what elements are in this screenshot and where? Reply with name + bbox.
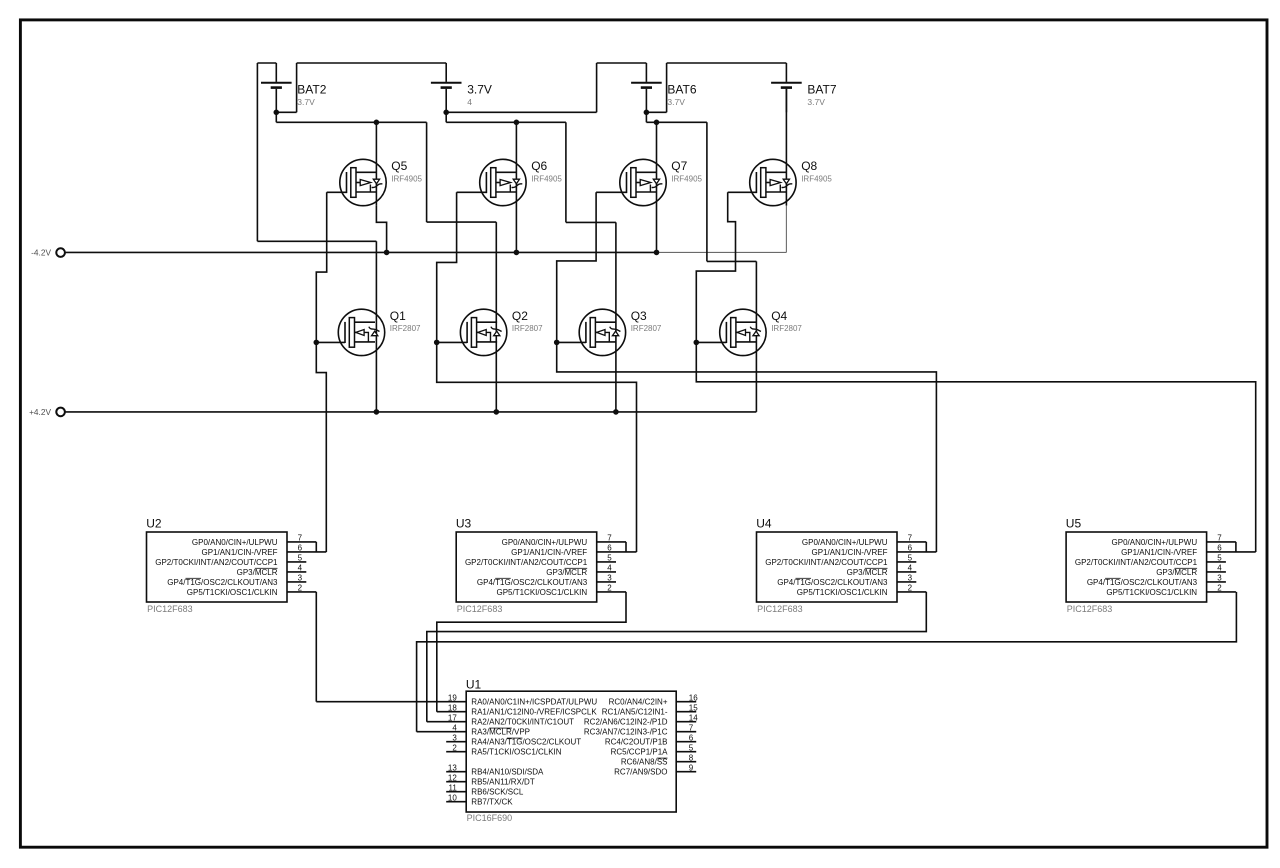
svg-text:RA5/T1CKI/OSC1/CLKIN: RA5/T1CKI/OSC1/CLKIN — [471, 748, 561, 757]
svg-text:Q2: Q2 — [512, 309, 528, 323]
svg-text:3.7V: 3.7V — [807, 97, 825, 107]
svg-text:U1: U1 — [466, 678, 482, 692]
svg-text:U4: U4 — [756, 516, 772, 530]
svg-text:RC6/AN8/SS: RC6/AN8/SS — [621, 758, 668, 767]
svg-text:3.7V: 3.7V — [297, 97, 315, 107]
svg-text:IRF4905: IRF4905 — [671, 174, 702, 183]
svg-text:IRF2807: IRF2807 — [390, 324, 421, 333]
svg-text:3.7V: 3.7V — [667, 97, 685, 107]
svg-text:U2: U2 — [146, 516, 162, 530]
svg-text:Q5: Q5 — [391, 159, 407, 173]
svg-text:GP3/MCLR: GP3/MCLR — [546, 568, 587, 577]
svg-text:GP2/T0CKI/INT/AN2/COUT/CCP1: GP2/T0CKI/INT/AN2/COUT/CCP1 — [1075, 558, 1198, 567]
svg-text:GP0/AN0/CIN+/ULPWU: GP0/AN0/CIN+/ULPWU — [802, 538, 888, 547]
svg-text:IRF2807: IRF2807 — [771, 324, 802, 333]
svg-text:18: 18 — [448, 703, 457, 712]
svg-text:IRF2807: IRF2807 — [512, 324, 543, 333]
svg-text:GP0/AN0/CIN+/ULPWU: GP0/AN0/CIN+/ULPWU — [192, 538, 278, 547]
svg-text:RA3/MCLR/VPP: RA3/MCLR/VPP — [471, 728, 530, 737]
svg-text:RC0/AN4/C2IN+: RC0/AN4/C2IN+ — [609, 698, 668, 707]
svg-text:U5: U5 — [1066, 516, 1082, 530]
svg-text:GP5/T1CKI/OSC1/CLKIN: GP5/T1CKI/OSC1/CLKIN — [187, 588, 278, 597]
svg-text:IRF4905: IRF4905 — [391, 174, 422, 183]
svg-text:+4.2V: +4.2V — [29, 407, 51, 417]
svg-text:GP4/T1G/OSC2/CLKOUT/AN3: GP4/T1G/OSC2/CLKOUT/AN3 — [167, 578, 278, 587]
svg-text:IRF2807: IRF2807 — [631, 324, 662, 333]
svg-text:RC7/AN9/SDO: RC7/AN9/SDO — [614, 768, 667, 777]
svg-text:GP4/T1G/OSC2/CLKOUT/AN3: GP4/T1G/OSC2/CLKOUT/AN3 — [477, 578, 588, 587]
svg-text:GP1/AN1/CIN-/VREF: GP1/AN1/CIN-/VREF — [511, 548, 587, 557]
svg-text:Q7: Q7 — [671, 159, 687, 173]
svg-text:RA4/AN3/T1G/OSC2/CLKOUT: RA4/AN3/T1G/OSC2/CLKOUT — [471, 738, 581, 747]
svg-text:Q8: Q8 — [801, 159, 817, 173]
svg-text:4: 4 — [452, 723, 457, 732]
svg-text:19: 19 — [448, 693, 457, 702]
svg-text:BAT2: BAT2 — [297, 83, 326, 97]
svg-text:RC1/AN5/C12IN1-: RC1/AN5/C12IN1- — [602, 708, 668, 717]
svg-text:GP0/AN0/CIN+/ULPWU: GP0/AN0/CIN+/ULPWU — [502, 538, 588, 547]
svg-text:GP3/MCLR: GP3/MCLR — [237, 568, 278, 577]
svg-text:Q1: Q1 — [390, 309, 406, 323]
svg-text:17: 17 — [448, 713, 457, 722]
svg-text:RC5/CCP1/P1A: RC5/CCP1/P1A — [611, 748, 669, 757]
svg-text:PIC12F683: PIC12F683 — [147, 604, 193, 614]
svg-text:RA0/AN0/C1IN+/ICSPDAT/ULPWU: RA0/AN0/C1IN+/ICSPDAT/ULPWU — [471, 698, 597, 707]
svg-text:GP3/MCLR: GP3/MCLR — [847, 568, 888, 577]
svg-text:GP3/MCLR: GP3/MCLR — [1156, 568, 1197, 577]
svg-text:GP5/T1CKI/OSC1/CLKIN: GP5/T1CKI/OSC1/CLKIN — [797, 588, 888, 597]
svg-text:BAT7: BAT7 — [807, 83, 836, 97]
svg-text:RB4/AN10/SDI/SDA: RB4/AN10/SDI/SDA — [471, 768, 544, 777]
svg-text:GP0/AN0/CIN+/ULPWU: GP0/AN0/CIN+/ULPWU — [1112, 538, 1198, 547]
svg-text:3.7V: 3.7V — [467, 83, 492, 97]
svg-text:GP1/AN1/CIN-/VREF: GP1/AN1/CIN-/VREF — [1121, 548, 1197, 557]
svg-text:PIC12F683: PIC12F683 — [457, 604, 503, 614]
svg-text:Q4: Q4 — [771, 309, 787, 323]
svg-text:PIC16F690: PIC16F690 — [467, 813, 513, 823]
svg-text:GP4/T1G/OSC2/CLKOUT/AN3: GP4/T1G/OSC2/CLKOUT/AN3 — [777, 578, 888, 587]
svg-text:RB5/AN11/RX/DT: RB5/AN11/RX/DT — [471, 778, 535, 787]
svg-text:Q3: Q3 — [631, 309, 647, 323]
svg-text:Q6: Q6 — [531, 159, 547, 173]
svg-text:PIC12F683: PIC12F683 — [757, 604, 803, 614]
svg-text:GP1/AN1/CIN-/VREF: GP1/AN1/CIN-/VREF — [811, 548, 887, 557]
svg-text:PIC12F683: PIC12F683 — [1067, 604, 1113, 614]
svg-text:GP4/T1G/OSC2/CLKOUT/AN3: GP4/T1G/OSC2/CLKOUT/AN3 — [1087, 578, 1198, 587]
svg-text:RA2/AN2/T0CKI/INT/C1OUT: RA2/AN2/T0CKI/INT/C1OUT — [471, 718, 574, 727]
svg-text:GP5/T1CKI/OSC1/CLKIN: GP5/T1CKI/OSC1/CLKIN — [496, 588, 587, 597]
svg-text:RC3/AN7/C12IN3-/P1C: RC3/AN7/C12IN3-/P1C — [584, 728, 668, 737]
svg-text:GP1/AN1/CIN-/VREF: GP1/AN1/CIN-/VREF — [201, 548, 277, 557]
svg-text:IRF4905: IRF4905 — [801, 174, 832, 183]
svg-text:IRF4905: IRF4905 — [531, 174, 562, 183]
svg-text:4: 4 — [467, 97, 472, 107]
svg-text:RB6/SCK/SCL: RB6/SCK/SCL — [471, 788, 524, 797]
svg-text:BAT6: BAT6 — [667, 83, 696, 97]
svg-text:GP2/T0CKI/INT/AN2/COUT/CCP1: GP2/T0CKI/INT/AN2/COUT/CCP1 — [765, 558, 888, 567]
svg-text:RA1/AN1/C12IN0-/VREF/ICSPCLK: RA1/AN1/C12IN0-/VREF/ICSPCLK — [471, 708, 597, 717]
svg-text:RC4/C2OUT/P1B: RC4/C2OUT/P1B — [605, 738, 668, 747]
svg-text:RC2/AN6/C12IN2-/P1D: RC2/AN6/C12IN2-/P1D — [584, 718, 668, 727]
svg-text:GP2/T0CKI/INT/AN2/COUT/CCP1: GP2/T0CKI/INT/AN2/COUT/CCP1 — [155, 558, 278, 567]
svg-text:RB7/TX/CK: RB7/TX/CK — [471, 798, 513, 807]
svg-text:-4.2V: -4.2V — [31, 248, 51, 258]
svg-text:GP2/T0CKI/INT/AN2/COUT/CCP1: GP2/T0CKI/INT/AN2/COUT/CCP1 — [465, 558, 588, 567]
svg-text:U3: U3 — [456, 516, 472, 530]
svg-text:GP5/T1CKI/OSC1/CLKIN: GP5/T1CKI/OSC1/CLKIN — [1106, 588, 1197, 597]
